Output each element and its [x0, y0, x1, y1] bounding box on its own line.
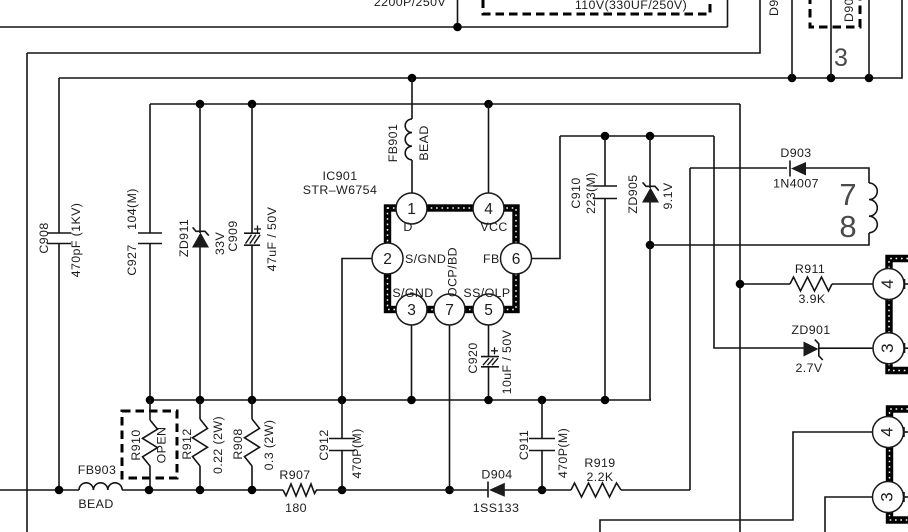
zener diode ZD901: [804, 340, 874, 360]
svg-text:R912: R912: [180, 428, 194, 459]
svg-text:2.2K: 2.2K: [586, 470, 613, 484]
plus sign C909: [254, 226, 261, 233]
wire transformer box left x690: [689, 168, 691, 490]
svg-text:R911: R911: [795, 262, 825, 276]
svg-text:3: 3: [407, 302, 416, 319]
node junction at (59,490): [55, 486, 64, 495]
wire horizontal y53: [27, 0, 760, 53]
transformer winding 7-8: [869, 183, 877, 233]
node junction at (200,490): [196, 486, 205, 495]
svg-text:C908: C908: [37, 222, 51, 253]
svg-text:3.9K: 3.9K: [798, 292, 825, 306]
wire horizontal y104: [150, 103, 740, 105]
pin 6 of IC901: [501, 243, 532, 274]
wire vertical x150 lower: [149, 244, 151, 401]
resistor R912: [193, 400, 208, 490]
svg-text:3: 3: [878, 492, 897, 501]
node junction at (650,136): [646, 132, 655, 141]
resistor R919: [571, 483, 621, 497]
wire R919 right and up x690: [621, 489, 690, 491]
svg-text:4: 4: [878, 427, 897, 436]
capacitor C920 electrolytic: [481, 357, 499, 400]
wire vertical x869 from top: [868, 0, 870, 78]
svg-text:ZD901: ZD901: [791, 323, 830, 337]
node junction at (488.5,400): [484, 396, 493, 405]
pin 3 of connector 1: [873, 333, 904, 364]
tick pin3 cn2: [904, 492, 908, 502]
capacitor C910: [593, 136, 617, 400]
svg-text:D903: D903: [780, 146, 811, 160]
resistor R910 dashed box: [122, 411, 177, 478]
wire pin3 down: [411, 325, 413, 400]
wire vertical x59 upper (C908 top): [58, 78, 60, 233]
wire D904 to R919: [505, 489, 572, 491]
node junction at (869,78): [865, 74, 874, 83]
wire pin4 connector2: [600, 432, 873, 532]
svg-text:D904: D904: [481, 468, 512, 482]
svg-text:STR–W6754: STR–W6754: [303, 183, 378, 197]
node junction at (792,78): [788, 74, 797, 83]
svg-text:C909: C909: [226, 220, 240, 251]
svg-text:OCP/BD: OCP/BD: [446, 247, 460, 297]
wire bus bottom y490 left: [0, 489, 79, 491]
wire top horizontal y26: [0, 26, 728, 28]
node junction at (411.5,400): [407, 396, 416, 405]
svg-text:3: 3: [834, 44, 848, 72]
wire vertical x831 from top: [830, 0, 832, 78]
node junction at (252,490): [248, 486, 257, 495]
svg-text:1SS133: 1SS133: [473, 501, 520, 515]
wire pin4 vertical x488.5: [488, 104, 490, 195]
node junction at (412,78): [408, 74, 417, 83]
svg-text:2: 2: [383, 251, 392, 268]
pin 5 of IC901: [473, 294, 504, 325]
diode D903: [790, 161, 806, 177]
svg-text:FB901: FB901: [386, 124, 400, 163]
svg-text:470P(M): 470P(M): [556, 428, 570, 478]
node junction at (740,284): [736, 280, 745, 289]
node junction at (605,400): [601, 396, 610, 405]
pin 7 of IC901: [434, 294, 465, 325]
svg-text:IC901: IC901: [322, 169, 357, 183]
svg-text:2.7V: 2.7V: [795, 361, 822, 375]
dashed box around D902: [810, 0, 860, 27]
capacitor C912: [329, 400, 355, 490]
svg-text:OPEN: OPEN: [155, 427, 169, 464]
svg-text:6: 6: [512, 251, 521, 268]
svg-text:104(M): 104(M): [125, 188, 139, 230]
node junction at (489,104): [484, 100, 493, 109]
svg-text:BEAD: BEAD: [78, 497, 113, 511]
node junction at (252,104): [248, 100, 257, 109]
pin 2 of IC901: [372, 243, 403, 274]
wire horizontal y78: [59, 0, 902, 78]
node junction at (342,490): [338, 486, 347, 495]
capacitor C908: [47, 233, 71, 244]
svg-text:ZD905: ZD905: [626, 174, 640, 213]
pin 4 of IC901: [473, 193, 504, 224]
svg-text:470P(M): 470P(M): [350, 428, 364, 478]
node junction at (542,400): [538, 396, 547, 405]
wire bus top y400: [150, 399, 651, 401]
svg-text:FB903: FB903: [78, 463, 117, 477]
node junction at (605,136): [601, 132, 610, 141]
connector block 1 thick outline: [889, 259, 908, 371]
dashed box 110V: [483, 0, 710, 14]
svg-text:R908: R908: [231, 428, 245, 459]
node junction at (542,490): [538, 486, 547, 495]
tick pin3 cn1: [904, 343, 908, 353]
node junction at (831,78): [827, 74, 836, 83]
wire ZD905 down to bus: [649, 245, 651, 400]
node junction at (650,245): [646, 241, 655, 250]
svg-text:470pF (1KV): 470pF (1KV): [69, 203, 83, 278]
wire x714 and y348 to ZD901: [714, 136, 804, 348]
svg-text:D: D: [403, 220, 412, 234]
connector block 2 thick outline: [890, 409, 908, 520]
node junction at (458,26): [453, 23, 462, 32]
svg-text:D902: D902: [842, 0, 856, 22]
wire right edge of top box x727: [727, 0, 729, 27]
svg-text:2200P/250V: 2200P/250V: [374, 0, 447, 9]
capacitor C909 electrolytic: [244, 104, 260, 400]
wire pin7 down: [449, 325, 451, 490]
wire bead to R907: [122, 489, 283, 491]
zener diode ZD905: [642, 136, 659, 245]
wire ZD905 col meets bus end: [650, 399, 651, 401]
node junction at (200,104): [196, 100, 205, 109]
svg-text:33V: 33V: [213, 232, 227, 256]
svg-text:8: 8: [839, 209, 856, 244]
capacitor C911: [529, 400, 555, 490]
svg-text:3: 3: [878, 343, 897, 352]
node junction at (150,400): [146, 396, 155, 405]
svg-text:0.3 (2W): 0.3 (2W): [262, 420, 276, 471]
svg-text:7: 7: [445, 302, 454, 319]
tick pin4 cn2: [904, 427, 908, 437]
svg-text:C927: C927: [125, 244, 139, 275]
diode D904: [488, 482, 505, 498]
svg-text:S/GND: S/GND: [405, 252, 446, 266]
wire transformer return y245: [650, 233, 869, 245]
wire D903 to transformer: [806, 168, 869, 183]
svg-text:C911: C911: [517, 430, 531, 460]
svg-text:1N4007: 1N4007: [773, 177, 819, 191]
node junction at (252,400): [248, 396, 257, 405]
wire vertical x59 lower: [58, 244, 60, 491]
svg-text:5: 5: [484, 302, 493, 319]
wire stub x458 from top: [457, 0, 459, 27]
svg-text:4: 4: [484, 201, 493, 218]
svg-text:BEAD: BEAD: [417, 125, 431, 160]
zener diode ZD911: [192, 104, 209, 400]
pin 4 of connector 2: [873, 417, 904, 448]
pin 3 of connector 2: [873, 482, 904, 513]
resistor R907: [283, 484, 317, 496]
svg-text:7: 7: [839, 177, 856, 212]
resistor R908: [245, 400, 260, 490]
plus sign C920: [491, 347, 498, 354]
capacitor C927: [138, 233, 162, 244]
svg-text:223(M): 223(M): [584, 172, 598, 214]
svg-text:S/GND: S/GND: [392, 286, 433, 300]
node junction at (200,400): [196, 396, 205, 405]
op-amp U1 IC901 thick outline: [388, 208, 517, 310]
pin 1 of IC901: [396, 193, 427, 224]
pin 4 of connector 1: [873, 269, 904, 300]
svg-text:FB: FB: [483, 252, 500, 266]
resistor R910: [143, 400, 158, 490]
wire pin2 to x342: [342, 259, 372, 401]
svg-text:C912: C912: [317, 429, 331, 460]
svg-text:0.22 (2W): 0.22 (2W): [211, 416, 225, 474]
node junction at (149,490): [145, 486, 154, 495]
svg-text:10uF / 50V: 10uF / 50V: [500, 329, 514, 394]
wire pin6 to x560 up: [532, 136, 561, 259]
svg-text:1: 1: [407, 201, 416, 218]
svg-text:D906: D906: [767, 0, 781, 16]
ferrite bead FB903: [79, 483, 122, 490]
wire vertical x792 from top: [791, 0, 793, 78]
wire vertical x27: [26, 53, 28, 532]
tick pin4 cn1: [904, 279, 908, 289]
node junction at (449.5,490): [445, 486, 454, 495]
resistor R911: [740, 277, 873, 291]
wire pin3 connector2: [825, 497, 873, 532]
svg-text:4: 4: [878, 279, 897, 288]
pin 3 of IC901: [396, 294, 427, 325]
svg-text:ZD911: ZD911: [177, 219, 191, 257]
wire y168 to D903: [690, 167, 787, 169]
svg-text:VCC: VCC: [480, 220, 507, 234]
wire vertical x150 upper (C927 top): [149, 104, 151, 233]
node junction at (342,400): [338, 396, 347, 405]
svg-text:SS/OLP: SS/OLP: [463, 286, 510, 300]
wire pin5 down to C920: [488, 325, 490, 356]
svg-text:R907: R907: [279, 468, 310, 482]
svg-text:47uF / 50V: 47uF / 50V: [265, 206, 279, 271]
svg-text:180: 180: [285, 501, 307, 515]
ferrite bead FB901: [405, 78, 412, 193]
wire horizontal y136: [560, 135, 714, 137]
svg-text:9.1V: 9.1V: [661, 182, 675, 209]
wire vertical x740 long: [739, 104, 741, 532]
svg-text:C920: C920: [466, 342, 480, 373]
svg-text:R910: R910: [129, 429, 143, 460]
wire R907 to D904: [316, 489, 488, 491]
svg-text:C910: C910: [569, 177, 583, 208]
svg-text:R919: R919: [584, 456, 615, 470]
svg-text:110V(330UF/250V): 110V(330UF/250V): [575, 0, 687, 12]
